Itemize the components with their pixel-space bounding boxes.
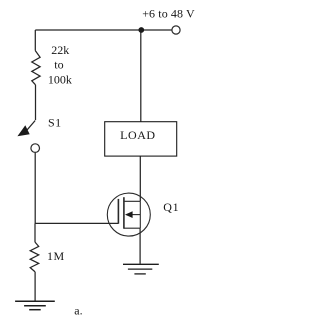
junction dot bbox=[138, 27, 144, 33]
switch S1 contact open circle bbox=[31, 144, 40, 153]
wire gate lead bbox=[35, 222, 118, 224]
wire resistor to switch bbox=[35, 85, 37, 120]
resistor R2 1M bbox=[30, 242, 39, 272]
wire rail to LOAD bbox=[140, 30, 142, 122]
ground (right) bbox=[123, 264, 159, 274]
svg-text:S1: S1 bbox=[48, 115, 61, 129]
svg-text:100k: 100k bbox=[48, 72, 72, 86]
terminal +V open circle bbox=[172, 26, 180, 34]
wire Q1 source to ground bbox=[139, 228, 141, 264]
svg-text:22k: 22k bbox=[51, 43, 69, 57]
resistor R1 22k-100k bbox=[32, 51, 40, 85]
svg-text:LOAD: LOAD bbox=[120, 128, 156, 142]
switch S1 arrowhead bbox=[17, 125, 29, 136]
wire top rail bbox=[35, 29, 172, 31]
ground (left) bbox=[15, 301, 55, 310]
wire gate node to 1M bbox=[34, 223, 36, 242]
load box bbox=[105, 122, 177, 156]
label 22k to 100k bbox=[48, 43, 72, 87]
svg-text:1M: 1M bbox=[47, 249, 65, 263]
wire switch contact to gate node bbox=[34, 153, 36, 224]
svg-text:+6 to 48 V: +6 to 48 V bbox=[142, 6, 195, 20]
svg-text:a.: a. bbox=[74, 304, 82, 318]
svg-text:to: to bbox=[54, 58, 63, 72]
mosfet Q1 bbox=[107, 193, 150, 236]
wire 1M to ground bbox=[34, 272, 36, 301]
svg-text:Q1: Q1 bbox=[163, 200, 179, 214]
wire LOAD to Q1 drain bbox=[139, 156, 141, 201]
switch S1 blade bbox=[26, 121, 35, 132]
wire left drop to resistor bbox=[34, 30, 36, 51]
